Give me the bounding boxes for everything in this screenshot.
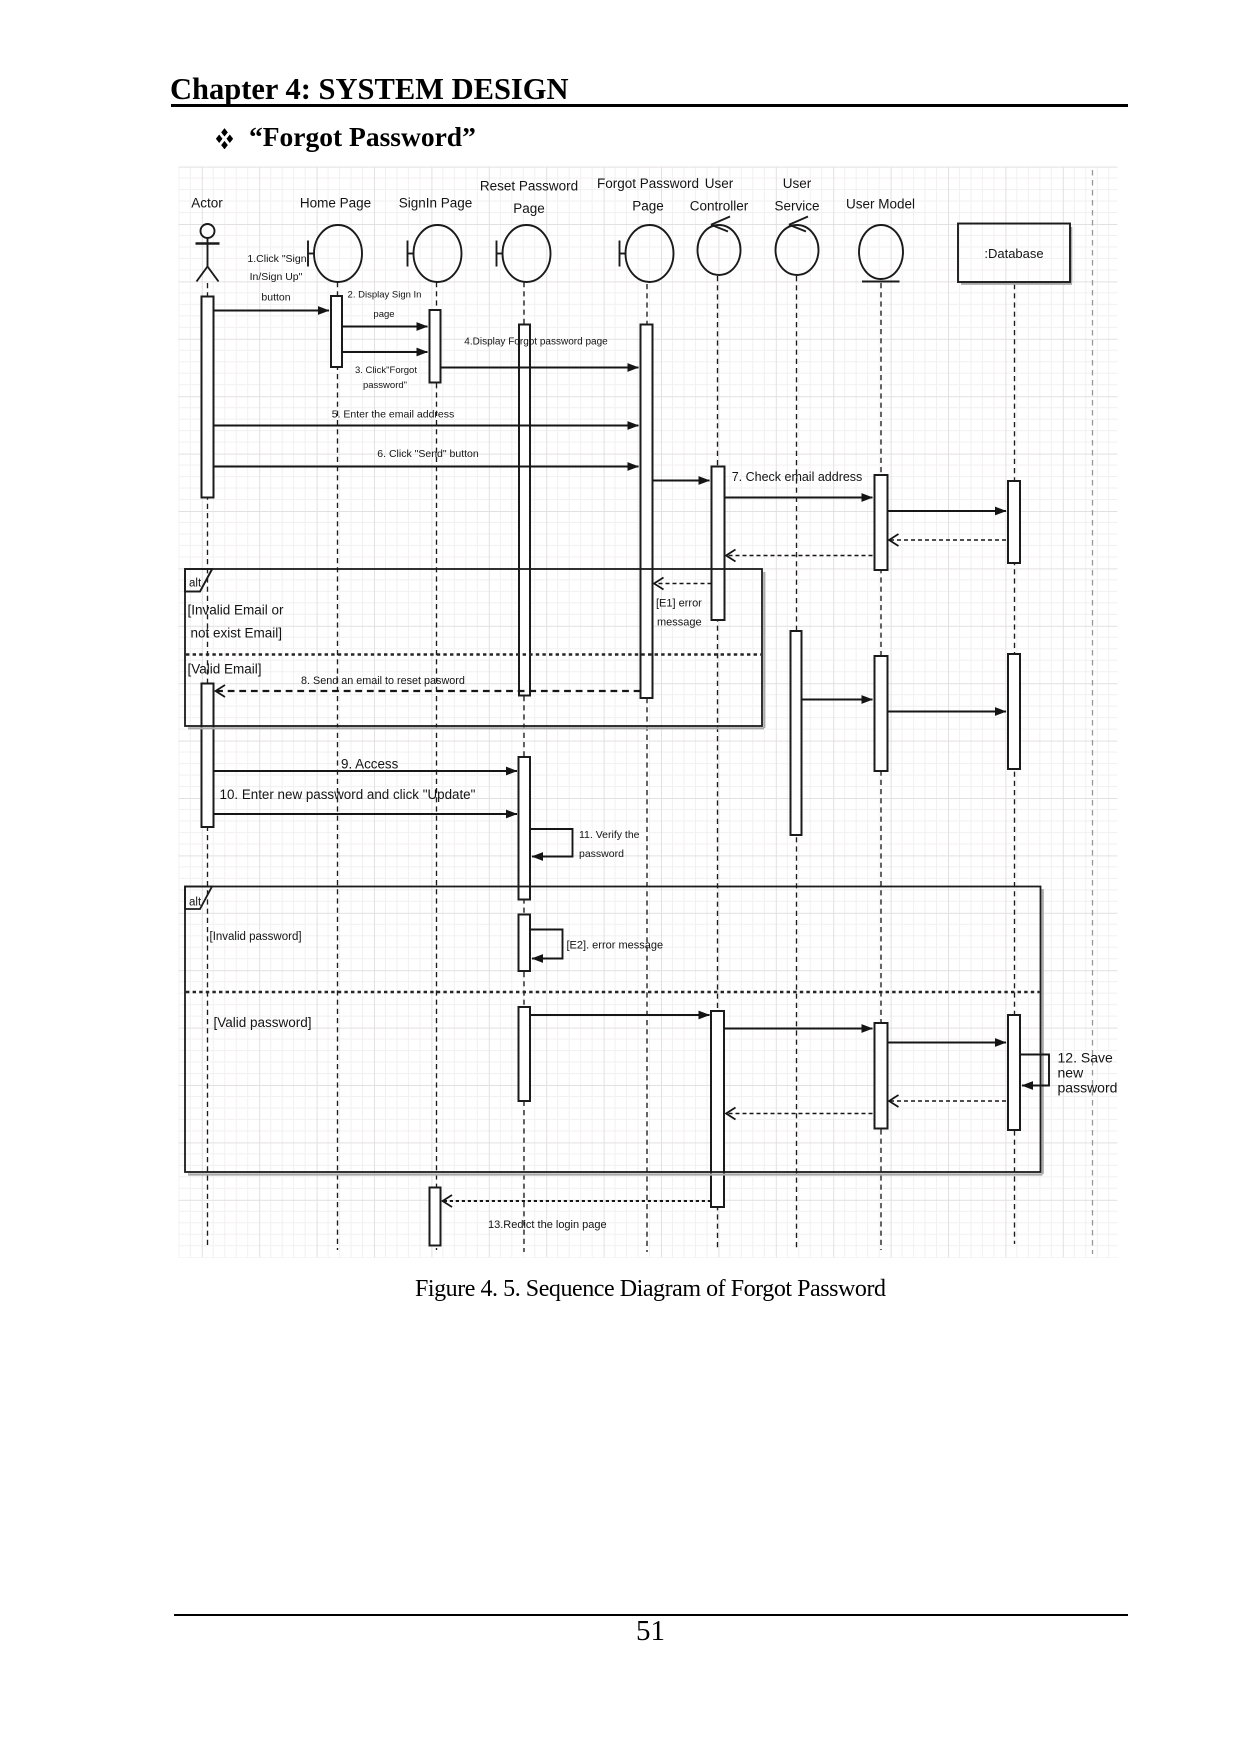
return database to model [890,539,1007,541]
svg-text:User Model: User Model [846,197,915,212]
lifeline Actor [207,283,209,1249]
svg-text:message: message [657,617,702,629]
svg-text:13.Redict the login page: 13.Redict the login page [488,1219,607,1231]
activation Reset Password Page 1 [519,325,530,696]
svg-text:[E2]. error message: [E2]. error message [567,940,664,952]
control User Service [776,217,819,276]
return model to controller 2 [727,1113,873,1115]
svg-text:Reset Password: Reset Password [480,179,578,194]
message 7 Check email address [725,497,873,499]
svg-text:Controller: Controller [690,199,749,214]
entity User Model [859,225,903,282]
activation Home Page [331,296,342,367]
message 1 Click Sign In/Sign Up [214,310,330,312]
page number [636,1615,665,1648]
svg-text:User: User [783,176,812,191]
message 3 Click Forgot password [342,351,428,353]
alt frame 1 shadow [188,727,764,729]
message model to database 2 [888,711,1007,713]
svg-text:1.Click "Sign: 1.Click "Sign [247,253,306,265]
svg-text:SignIn Page: SignIn Page [399,196,473,211]
boundary Reset Password Page [497,225,551,282]
activation Database 1 [1008,481,1020,563]
message 4 Display Forgot password page [441,367,639,369]
page-break guide line [1092,170,1094,1254]
self message 11 Verify password [530,829,573,857]
message 2 Display Sign In page [342,326,428,328]
svg-text:alt: alt [189,897,202,909]
svg-text:[Invalid password]: [Invalid password] [210,931,302,943]
alt frame 1 divider [186,653,761,655]
lifeline User Service [796,276,798,1250]
svg-text:Home Page: Home Page [300,196,371,211]
self message E2 error [530,930,563,959]
svg-text:12. Save: 12. Save [1058,1050,1113,1066]
message 6 Click Send button [214,466,639,468]
diagram grid background [179,167,1118,1258]
activation Database 2 [1008,654,1020,769]
message controller to model [724,1028,873,1030]
figure caption [415,1276,886,1303]
svg-text:10. Enter new password and cli: 10. Enter new password and click "Update… [220,787,476,802]
svg-text:alt: alt [189,578,202,590]
svg-text:new: new [1058,1065,1085,1081]
heading underline [171,104,1128,107]
message Forgot page to controller [653,480,710,482]
activation User Service [791,631,802,835]
footer rule [174,1614,1128,1617]
svg-text:8. Send an email to reset pasw: 8. Send an email to reset pasword [301,675,465,687]
activation User Controller 1 [712,467,725,621]
message 5 Enter the email address [214,425,639,427]
svg-text:4.Display Forgot password page: 4.Display Forgot password page [464,337,608,348]
svg-text:5. Enter the email address: 5. Enter the email address [332,409,455,421]
boundary Forgot Password Page [620,225,674,282]
lifeline Reset Password Page [523,282,525,1252]
lifeline User Controller [717,276,719,1250]
lifeline User Model [880,283,882,1250]
svg-text:User: User [705,176,734,191]
svg-text:[E1] error: [E1] error [656,598,702,610]
message reset to controller [530,1014,710,1016]
lifeline Forgot Password Page [646,284,648,1252]
activation Reset Password Page 3 [519,915,531,972]
svg-text:11. Verify the: 11. Verify the [579,829,640,841]
message 9 Access [214,770,518,772]
alt frame 2 shadow [188,1173,1043,1175]
activation Reset Password Page 4 [519,1007,531,1101]
boundary SignIn Page [408,225,462,282]
activation Actor 1 [202,297,214,498]
bullet text [249,121,476,153]
activation Forgot Password Page [641,325,653,699]
svg-text:[Valid Email]: [Valid Email] [188,662,262,677]
message model to database [888,510,1007,512]
svg-text:not exist Email]: not exist Email] [191,626,283,641]
self message 12 Save new password [1020,1055,1049,1086]
boundary Home Page [308,225,362,282]
svg-text:password: password [1058,1080,1118,1096]
chapter heading [170,72,569,107]
Database box [958,224,1072,284]
activation Reset Password Page 2 [519,757,531,900]
svg-text:password": password" [363,380,407,391]
svg-text:password: password [579,848,624,860]
svg-text:page: page [373,309,394,320]
svg-text:In/Sign Up": In/Sign Up" [250,271,303,283]
actor figure [196,224,220,282]
alt frame 2 divider [186,991,1040,993]
return model to controller [727,555,873,557]
svg-text:6. Click "Send" button: 6. Click "Send" button [377,448,479,460]
lifeline SignIn Page [436,282,438,1250]
svg-text:Page: Page [632,199,664,214]
svg-text:[Valid password]: [Valid password] [214,1015,312,1030]
message 10 Enter new password [214,813,518,815]
alt frame 2 pentagon [185,887,212,910]
svg-text:Forgot Password: Forgot Password [597,176,699,191]
svg-text:9. Access: 9. Access [341,757,399,772]
svg-text:button: button [261,292,290,304]
svg-text:2. Display Sign In: 2. Display Sign In [348,290,422,301]
alt frame 1 [185,569,762,726]
control User Controller [698,217,741,276]
lifeline Database [1014,284,1016,1244]
return database to model 2 [890,1100,1007,1102]
svg-text:3. Click"Forgot: 3. Click"Forgot [355,365,417,376]
svg-text:Page: Page [513,201,545,216]
activation SignIn Page 2 [430,1188,441,1246]
svg-text:7. Check email address: 7. Check email address [732,470,863,484]
alt frame 2 [185,887,1041,1173]
activation User Controller 2 [711,1011,724,1207]
activation User Model 3 [875,1023,888,1129]
message E1 error [655,583,712,585]
message 8 Send reset email [216,690,641,692]
message model to database 3 [888,1042,1007,1044]
activation User Model 2 [875,656,888,771]
message service to model [802,699,873,701]
svg-text::Database: :Database [984,246,1043,261]
svg-text:[Invalid Email or: [Invalid Email or [188,603,285,618]
activation Actor 2 [202,684,214,828]
message 13 Redirect login page [443,1200,711,1202]
activation User Model 1 [875,475,888,570]
svg-text:Actor: Actor [191,196,223,211]
svg-text:Service: Service [774,199,819,214]
activation Database 3 [1008,1015,1020,1130]
alt frame 1 pentagon [185,569,212,592]
bullet diamond [215,127,234,149]
lifeline Home Page [337,282,339,1250]
activation SignIn Page 1 [430,310,441,383]
